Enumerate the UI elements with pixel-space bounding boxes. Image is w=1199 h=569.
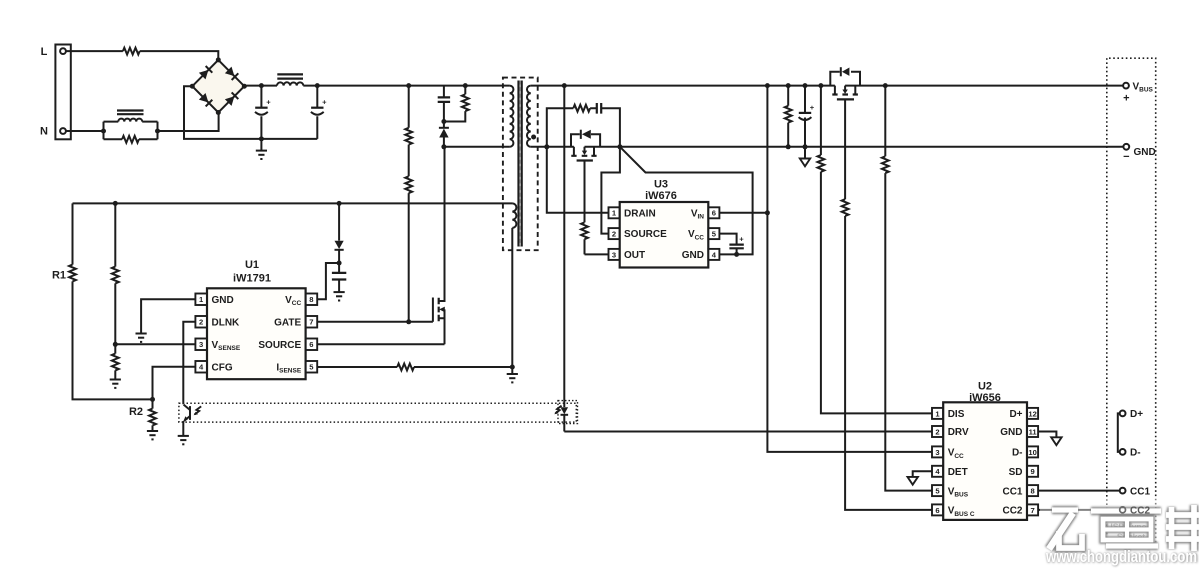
- node vcc: [337, 261, 342, 266]
- svg-text:−: −: [1123, 151, 1129, 163]
- U1 pin 3 square: [195, 339, 207, 351]
- U2 pin 11 square: [1027, 426, 1038, 437]
- wire CC2: [1038, 509, 1120, 511]
- U2 pin 2 square: [932, 426, 943, 437]
- U3 pin 5 square: [708, 228, 719, 239]
- R2 ground: [147, 431, 158, 439]
- secondary snubber resistor R8: [547, 108, 597, 147]
- svg-text:GND: GND: [212, 295, 234, 306]
- U1 pin 4 square: [195, 361, 207, 373]
- svg-text:GATE: GATE: [274, 317, 301, 328]
- choke damping resistor: [122, 136, 139, 143]
- input terminal block J1: [55, 45, 70, 140]
- U2 pin 5 square: [932, 485, 943, 496]
- node clamp R top: [463, 83, 468, 88]
- bulk cap C1: [260, 86, 262, 139]
- node bleeder top: [786, 83, 791, 88]
- node SR source junction: [617, 144, 622, 149]
- bridge diode D-TL: [199, 66, 212, 79]
- VBUS sense LED line: [563, 86, 565, 432]
- U3 pin 1 square: [609, 207, 620, 218]
- svg-text:CC1: CC1: [1002, 486, 1022, 497]
- aux line from R1 to aux winding: [73, 202, 513, 204]
- opto lightning mark: [195, 406, 202, 414]
- wire primary bottom: [444, 146, 510, 148]
- wire U1 SOURCE pin6: [317, 343, 444, 345]
- svg-text:N: N: [40, 126, 48, 138]
- svg-text:DRAIN: DRAIN: [624, 208, 656, 219]
- svg-text:R2: R2: [129, 406, 143, 418]
- transformer secondary winding: [527, 86, 531, 147]
- svg-text:12: 12: [1028, 409, 1036, 418]
- LED lightning mark: [555, 406, 561, 414]
- common-mode choke LF1 block: [104, 122, 158, 140]
- wire L2 to C2 and HV rail to transformer: [303, 85, 509, 87]
- node bridge bottom: [216, 110, 221, 115]
- svg-text:GND: GND: [1134, 147, 1156, 158]
- startup resistor R3 from HV rail to gate: [408, 86, 410, 322]
- transformer aux winding: [512, 203, 516, 228]
- U3 VIN riser to U2 VCC: [767, 86, 932, 452]
- node choke right: [155, 129, 160, 134]
- terminal GND: [1123, 144, 1129, 150]
- load switch MOSFET Q4: [835, 86, 855, 94]
- bridge diode D-BL: [199, 93, 212, 106]
- terminal N: [60, 128, 66, 134]
- fusible resistor RF1: [123, 48, 140, 55]
- svg-text:2: 2: [199, 318, 203, 327]
- DIS divider riser: [821, 86, 932, 414]
- D+/D- bracket: [1118, 413, 1120, 452]
- node C1 top: [259, 83, 264, 88]
- U1 pin 5 square: [306, 361, 318, 373]
- node bridge left: [190, 84, 195, 89]
- svg-text:+: +: [322, 98, 327, 107]
- svg-text:DIS: DIS: [948, 409, 965, 420]
- terminal D+: [1120, 411, 1126, 417]
- svg-text:+: +: [810, 103, 815, 112]
- bridge diode D-BR: [225, 92, 238, 105]
- terminal CC2: [1120, 507, 1126, 513]
- svg-text:CC2: CC2: [1130, 506, 1150, 517]
- U1 pin 2 square: [195, 316, 207, 328]
- node gate junction: [406, 319, 411, 324]
- svg-text:D+: D+: [1130, 409, 1143, 420]
- svg-text:L: L: [41, 46, 48, 58]
- vcc rectifier diode D2: [338, 203, 340, 263]
- svg-text:6: 6: [935, 506, 939, 515]
- SR gate resistor R9: [581, 222, 588, 239]
- clamp diode D1: [443, 122, 445, 147]
- wire gate row to FET: [409, 321, 433, 323]
- wire vcc to U1 pin8: [317, 263, 339, 299]
- U2 pin 10 square: [1027, 446, 1038, 457]
- R2 resistor: [152, 399, 154, 430]
- isense resistor R7: [317, 366, 512, 368]
- svg-text:11: 11: [1029, 427, 1038, 436]
- node C2 top: [315, 83, 320, 88]
- svg-text:CC2: CC2: [1002, 506, 1022, 517]
- svg-text:D-: D-: [1130, 448, 1141, 459]
- vcc cap C4: [338, 263, 340, 292]
- R1 resistor: [73, 203, 153, 399]
- node choke left: [101, 129, 106, 134]
- wire DLNK to optocoupler: [183, 322, 195, 404]
- svg-text:iW656: iW656: [969, 392, 1001, 404]
- node isense/aux return: [510, 365, 515, 370]
- DET arrow ground: [913, 471, 932, 476]
- SR MOSFET Q3 body diode: [571, 134, 600, 147]
- USB connector dotted outline: [1107, 58, 1156, 542]
- svg-text:OUT: OUT: [624, 250, 645, 261]
- VBUS sense riser: [885, 86, 932, 491]
- isense ground: [511, 367, 513, 373]
- clamp capacitor C3: [443, 86, 445, 122]
- wire CFG to divider: [153, 367, 196, 400]
- node aux divider tap: [113, 201, 118, 206]
- bridge diode D-TR: [225, 67, 238, 80]
- U2 pin 8 square: [1027, 485, 1038, 496]
- vsense divider upper resistor R5: [114, 203, 116, 344]
- svg-text:7: 7: [309, 318, 313, 327]
- U2 pin 4 square: [932, 466, 943, 477]
- terminal L: [60, 48, 66, 54]
- choke winding: [118, 119, 142, 122]
- terminal CC2 overlay: [1120, 507, 1126, 513]
- secondary return wire to SR FET: [531, 146, 574, 148]
- U2 pin 7 square: [1027, 504, 1038, 515]
- U1 pin 6 square: [306, 339, 318, 351]
- U3 pin 3 square: [609, 249, 620, 260]
- L2 core lines: [277, 74, 303, 78]
- svg-text:7: 7: [1030, 506, 1034, 515]
- svg-text:iW1791: iW1791: [233, 273, 271, 285]
- node bridge top: [216, 57, 221, 62]
- U2 iW656 box: [943, 402, 1027, 520]
- svg-text:DLNK: DLNK: [212, 317, 241, 328]
- U1 pin 7 square: [306, 316, 318, 328]
- optocoupler phototransistor Q2: [189, 406, 191, 420]
- opto emitter ground: [182, 421, 184, 435]
- node primary return: [441, 144, 446, 149]
- wire U3 SOURCE sense: [601, 147, 620, 234]
- secondary snubber cap C5: [597, 103, 601, 114]
- node startup tap: [406, 83, 411, 88]
- node after load switch: [883, 83, 888, 88]
- node snubber/drain sense: [544, 144, 549, 149]
- GND rail from SR source: [585, 146, 1124, 148]
- node C7 top: [803, 83, 808, 88]
- wire bridge minus rail: [184, 86, 317, 139]
- vcc cap ground: [334, 292, 345, 300]
- svg-text:GND: GND: [1000, 427, 1022, 438]
- feedback isolation dotted box: [179, 403, 576, 422]
- svg-text:U1: U1: [245, 259, 259, 271]
- primary MOSFET Q1: [432, 298, 434, 322]
- VBUS rail secondary top: [531, 85, 1123, 87]
- transformer primary winding: [510, 86, 514, 147]
- node C1 bottom: [259, 136, 264, 141]
- svg-text:DRV: DRV: [948, 427, 969, 438]
- svg-text:3: 3: [199, 340, 203, 349]
- wire vsense to U1 pin3: [115, 343, 195, 345]
- vsense divider ground: [110, 380, 121, 388]
- svg-text:10: 10: [1028, 448, 1036, 457]
- node VIN riser: [765, 210, 770, 215]
- watermark logo chongdiantou: [1045, 505, 1199, 567]
- U2 pin 9 square: [1027, 466, 1038, 477]
- transformer core: [519, 81, 522, 247]
- vsense divider lower resistor R6: [114, 344, 116, 379]
- U3 pin 4 square: [708, 249, 719, 260]
- wire U3 DRAIN sense: [547, 147, 609, 213]
- wire L to bridge top: [66, 51, 218, 60]
- wire U1 pin1 to ground: [141, 299, 195, 333]
- U3 pin 6 square: [708, 207, 719, 218]
- svg-text:D+: D+: [1009, 409, 1022, 420]
- U3 pin 2 square: [609, 228, 620, 239]
- svg-text:DET: DET: [948, 467, 968, 478]
- secondary polarity dot: [531, 135, 536, 140]
- terminal D-: [1120, 449, 1126, 455]
- U2 pin 12 square: [1027, 408, 1038, 419]
- wire bridge plus to cap C1: [244, 85, 277, 88]
- bulk cap C2: [316, 86, 318, 139]
- transformer T1 dashed outline: [503, 78, 538, 251]
- node vsense tap: [113, 342, 118, 347]
- U1 pin 1 square: [195, 294, 207, 306]
- node bridge right: [242, 84, 247, 89]
- svg-text:SOURCE: SOURCE: [624, 229, 667, 240]
- svg-text:CFG: CFG: [212, 362, 233, 373]
- node U3 vcc cap gnd: [734, 252, 739, 257]
- feedback LED D3: [561, 407, 569, 414]
- U1 iW1791 box: [207, 288, 306, 379]
- node LED top rail: [562, 83, 567, 88]
- svg-text:6: 6: [309, 340, 313, 349]
- wire choke to bridge bottom: [158, 113, 219, 132]
- svg-text:9: 9: [1030, 467, 1034, 476]
- svg-text:SOURCE: SOURCE: [258, 340, 301, 351]
- node R1/R2 junction: [150, 397, 155, 402]
- U1 gnd symbol: [136, 334, 147, 342]
- svg-text:2: 2: [935, 427, 939, 436]
- node C7 bottom: [803, 144, 808, 149]
- feedback LED dashed boxlet: [558, 401, 578, 424]
- U2 pin 6 square: [932, 504, 943, 515]
- svg-text:+: +: [739, 235, 744, 244]
- svg-text:6: 6: [712, 209, 716, 218]
- svg-text:2: 2: [612, 230, 616, 239]
- svg-text:U2: U2: [978, 380, 992, 392]
- DRV wire from LED to U2: [564, 431, 932, 433]
- C7 return arrow ground: [804, 147, 806, 158]
- svg-text:U3: U3: [654, 178, 668, 190]
- node bleeder bottom: [786, 144, 791, 149]
- node DIS divider top: [818, 83, 823, 88]
- U1 pin 8 square: [306, 294, 318, 306]
- U2 pin 3 square: [932, 446, 943, 457]
- choke core lines: [117, 111, 144, 115]
- U2 GND pin11 arrow ground: [1038, 432, 1056, 437]
- wire CC1: [1038, 490, 1120, 492]
- filter inductor L2: [277, 82, 303, 85]
- svg-text:CC1: CC1: [1130, 486, 1150, 497]
- bridge rectifier BR1: [192, 60, 244, 113]
- svg-text:3: 3: [612, 250, 616, 259]
- primary ground at input: [260, 139, 262, 150]
- U3 iW676 box: [620, 202, 709, 268]
- output cap C7: [804, 86, 806, 147]
- bleeder resistor R10: [787, 86, 789, 147]
- clamp resistor R4: [444, 86, 465, 122]
- svg-text:SD: SD: [1009, 467, 1023, 478]
- load switch Q4 body diode: [830, 72, 860, 86]
- svg-text:D-: D-: [1012, 448, 1023, 459]
- wire N to choke: [66, 130, 104, 132]
- watermark wash: [1040, 498, 1199, 566]
- node VIN riser top: [765, 83, 770, 88]
- svg-text:iW676: iW676: [645, 190, 677, 202]
- node clamp mid: [441, 119, 446, 124]
- svg-text:GND: GND: [682, 250, 704, 261]
- terminal CC1: [1120, 488, 1126, 494]
- svg-text:www.chongdiantou.com: www.chongdiantou.com: [1045, 547, 1197, 566]
- svg-text:3: 3: [935, 448, 939, 457]
- SR MOSFET Q3: [574, 147, 594, 155]
- svg-text:8: 8: [309, 295, 313, 304]
- wire U3 VIN: [720, 212, 768, 214]
- U2 pin 1 square: [932, 408, 943, 419]
- wire U3 OUT to gate resistor: [585, 253, 609, 255]
- wire U1 GATE pin7: [317, 321, 409, 323]
- terminal VBUS: [1123, 83, 1129, 89]
- node aux vcc tap: [337, 201, 342, 206]
- gate drive riser to U2: [845, 99, 932, 510]
- aux return wire: [511, 228, 513, 367]
- svg-text:+: +: [266, 98, 271, 107]
- svg-text:8: 8: [1030, 487, 1034, 496]
- wire U3 GND path: [620, 147, 753, 255]
- svg-text:R1: R1: [52, 270, 66, 282]
- U3 VCC cap C6: [720, 234, 737, 255]
- svg-text:+: +: [1123, 93, 1129, 105]
